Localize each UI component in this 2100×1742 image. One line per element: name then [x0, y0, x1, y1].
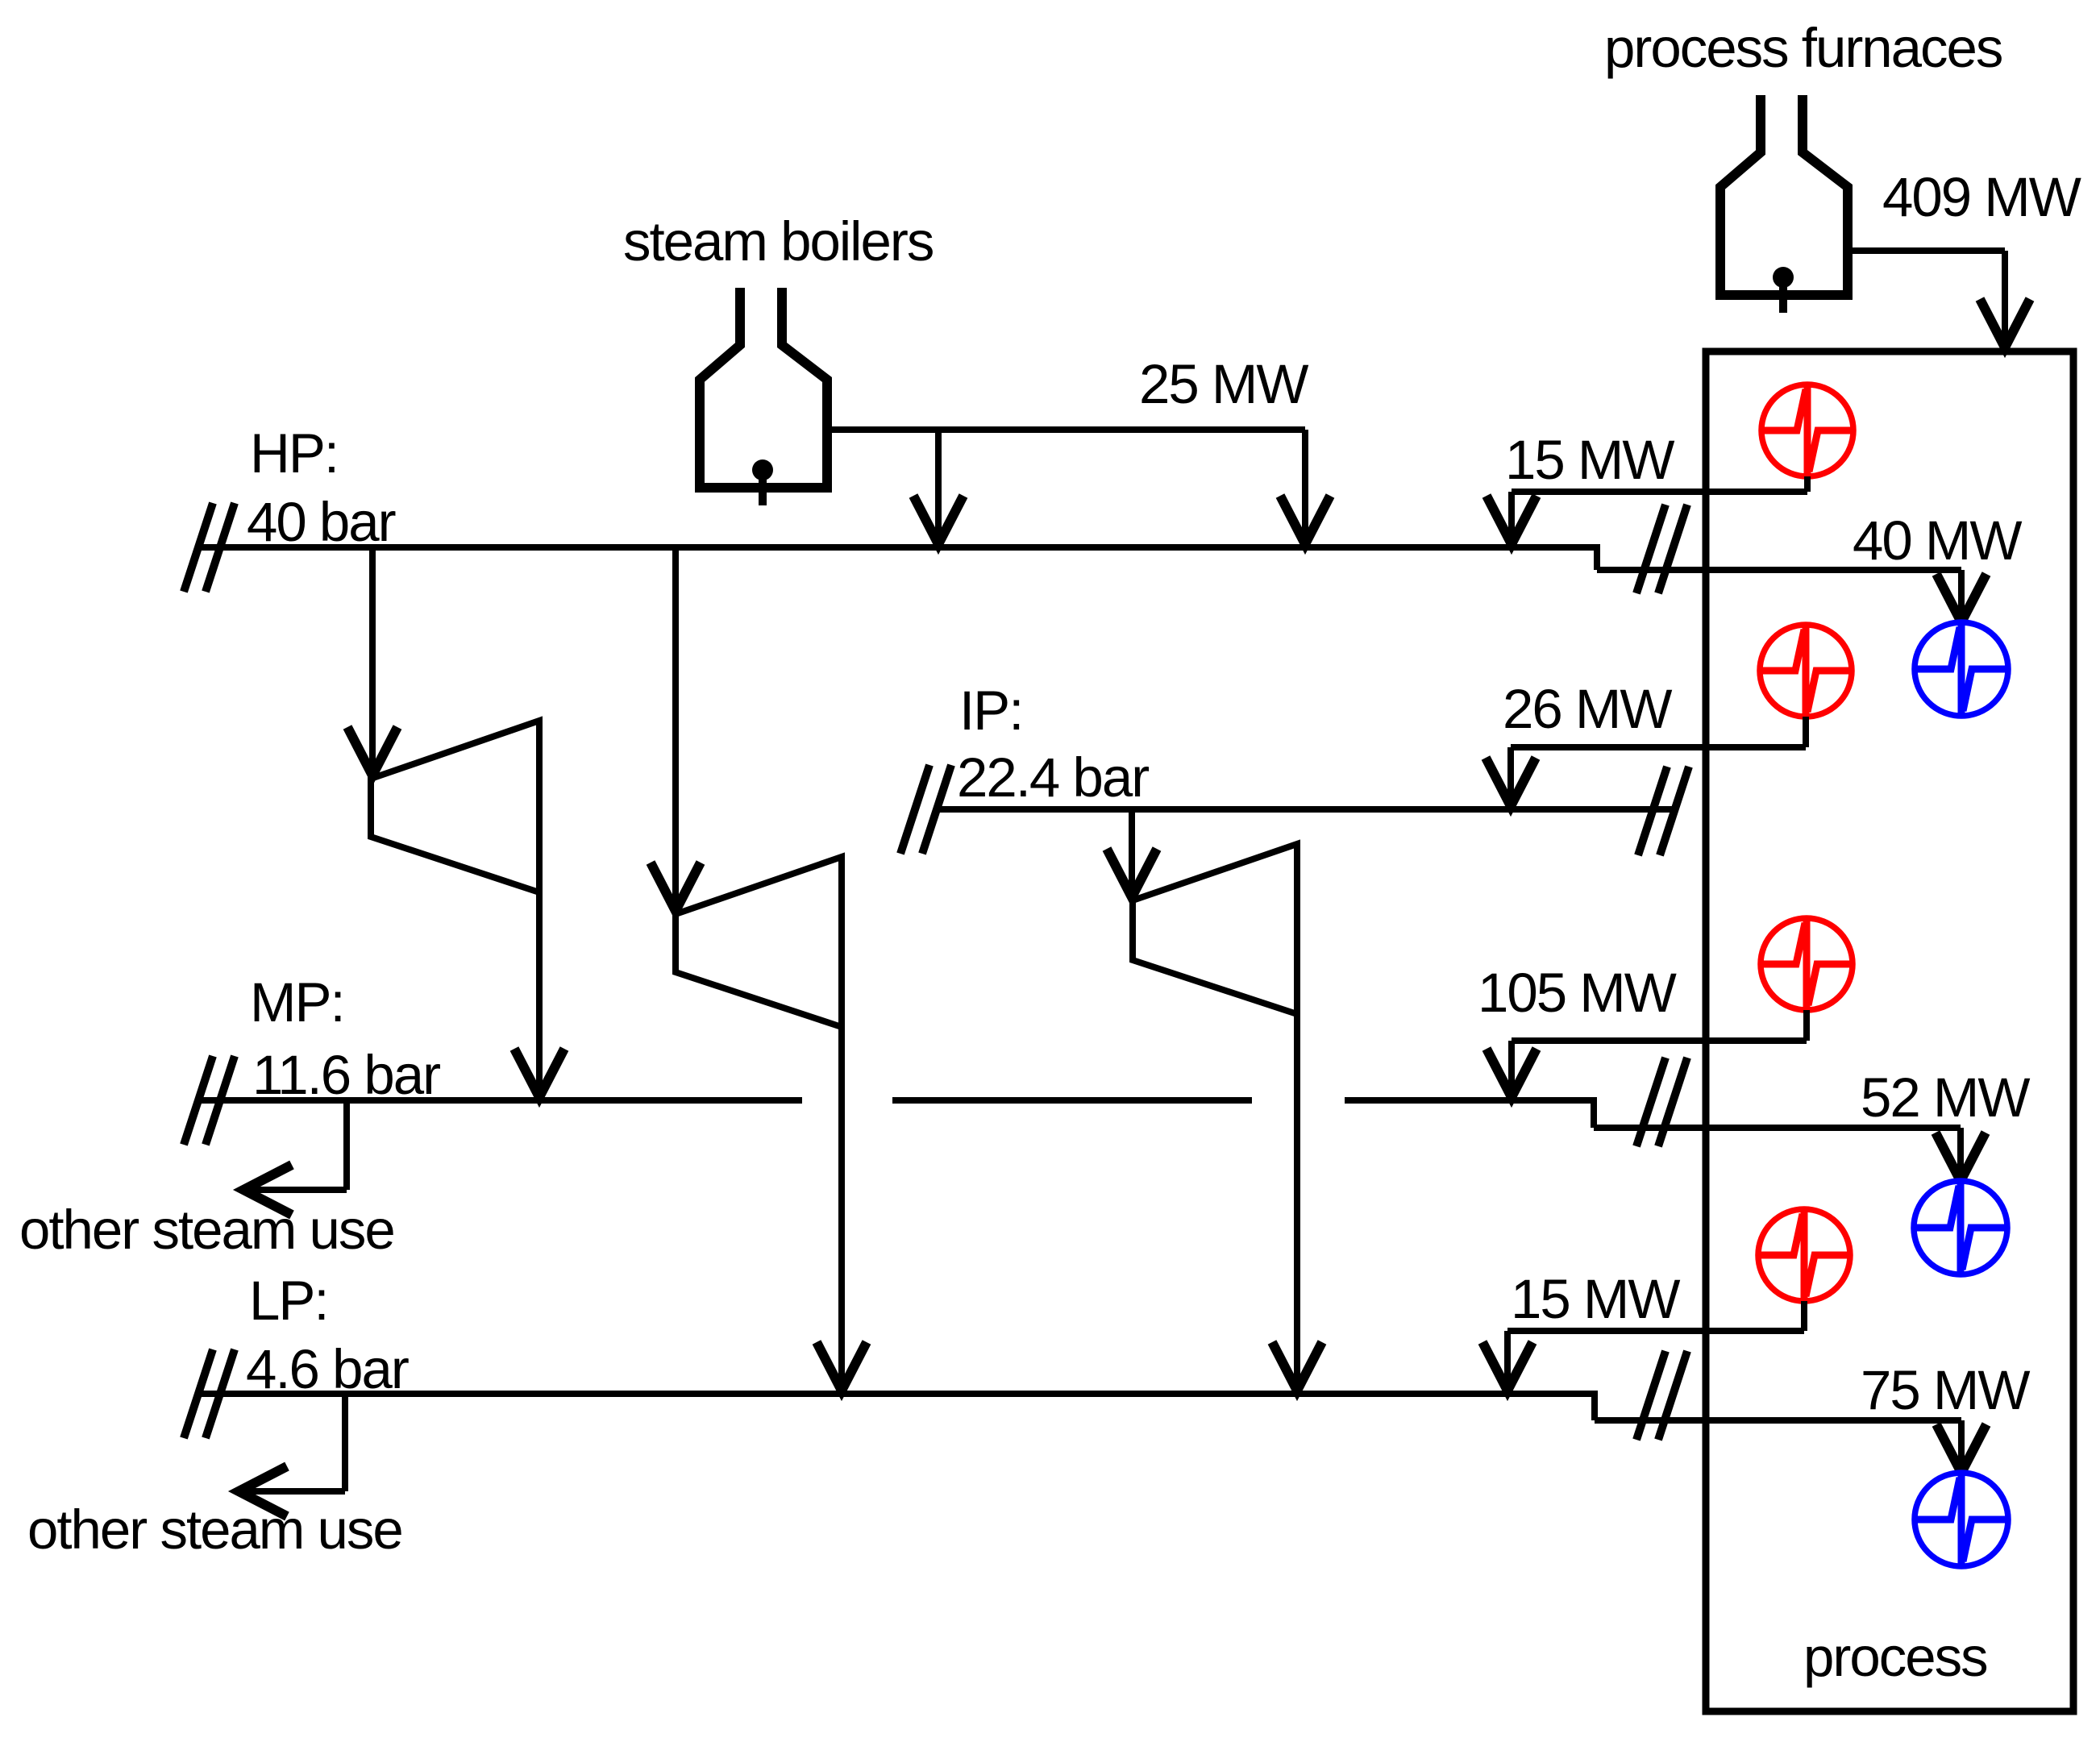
blue exchanger B2: [1914, 1181, 2007, 1274]
svg-text:steam boilers: steam boilers: [623, 210, 933, 272]
40 MW drop to exchanger: [1936, 570, 1986, 622]
LP right break: [1636, 1351, 1687, 1440]
label: 409 MW: [1882, 166, 2081, 228]
turbine T1 (HP-MP): [371, 721, 539, 892]
IP header left break: [900, 765, 951, 854]
label: 4.6 bar: [246, 1338, 409, 1400]
svg-text:other steam use: other steam use: [19, 1199, 394, 1261]
label: 25 MW: [1139, 353, 1308, 415]
svg-text:105 MW: 105 MW: [1478, 962, 1677, 1024]
26 MW wire R2 to IP header: [1486, 717, 1806, 806]
blue exchanger B3: [1915, 1473, 2008, 1566]
label: 26 MW: [1503, 678, 1672, 740]
MP right break: [1636, 1058, 1687, 1146]
LP other steam use branch: [239, 1394, 345, 1516]
svg-text:25 MW: 25 MW: [1139, 353, 1308, 415]
15 MW wire R4 to LP header: [1482, 1301, 1804, 1391]
svg-text:MP:: MP:: [250, 971, 344, 1033]
svg-text:IP:: IP:: [959, 680, 1022, 742]
label: 22.4 bar: [957, 746, 1149, 809]
label: steam boilers: [623, 210, 933, 272]
MP header seg3: [1345, 1097, 1594, 1104]
label: IP:: [959, 680, 1022, 742]
MP header jog down: [1591, 1097, 1597, 1128]
svg-text:HP:: HP:: [250, 422, 338, 484]
label: process: [1803, 1626, 1987, 1688]
red exchanger R2: [1760, 625, 1852, 717]
T2 inlet from HP header: [651, 547, 701, 911]
75 MW drop to exchanger: [1936, 1420, 1986, 1473]
label: 11.6 bar: [252, 1044, 440, 1106]
label: 15 MW (HP): [1505, 429, 1674, 491]
MP header left break: [184, 1056, 235, 1145]
label: 52 MW: [1861, 1066, 2030, 1129]
15 MW wire R1 to HP header: [1487, 476, 1807, 544]
label: 105 MW: [1478, 962, 1677, 1024]
T1 inlet from HP header: [347, 547, 397, 775]
svg-text:15 MW: 15 MW: [1505, 429, 1674, 491]
process furnace symbol: [1720, 95, 1848, 313]
svg-text:LP:: LP:: [249, 1270, 328, 1332]
label: other steam use (LP): [27, 1499, 402, 1561]
turbine T3 (IP-LP): [1133, 844, 1297, 1014]
MP header seg1: [202, 1097, 802, 1104]
25 MW branch 1 arrow to HP: [913, 430, 963, 544]
svg-text:26 MW: 26 MW: [1503, 678, 1672, 740]
T3 exhaust to LP header: [1272, 1014, 1322, 1391]
label: LP:: [249, 1270, 328, 1332]
label: process furnaces: [1604, 17, 2002, 79]
HP header 40 bar: [202, 544, 1597, 551]
IP header right break: [1638, 767, 1689, 855]
LP header left break: [184, 1349, 235, 1438]
105 MW wire R3 to MP header: [1487, 1010, 1807, 1097]
svg-text:52 MW: 52 MW: [1861, 1066, 2030, 1129]
MP other steam use branch: [243, 1100, 347, 1215]
T1 exhaust to MP header: [514, 892, 564, 1097]
label: 40 MW: [1853, 509, 2022, 572]
red exchanger R4: [1758, 1209, 1850, 1301]
label: HP:: [250, 422, 338, 484]
svg-text:409 MW: 409 MW: [1882, 166, 2081, 228]
red exchanger R3: [1761, 918, 1853, 1010]
25 MW line from boiler: [827, 426, 1305, 433]
label: other steam use (MP): [19, 1199, 394, 1261]
steam boiler furnace symbol: [700, 288, 827, 505]
red exchanger R1: [1761, 385, 1853, 476]
25 MW branch 2 arrow to HP: [1280, 430, 1330, 544]
HP header jog down: [1594, 544, 1600, 570]
T3 inlet from IP header: [1107, 809, 1157, 897]
blue exchanger B1: [1915, 622, 2008, 716]
T2 exhaust to LP header: [817, 1027, 867, 1391]
LP header jog down: [1591, 1391, 1598, 1420]
svg-text:40 MW: 40 MW: [1853, 509, 2022, 572]
40 MW line into process: [1597, 567, 1961, 573]
MP header seg2: [892, 1097, 1252, 1104]
label: 15 MW (LP): [1511, 1268, 1680, 1330]
75 MW line into process: [1595, 1417, 1961, 1424]
label: 40 bar: [247, 491, 396, 553]
HP right break: [1636, 505, 1687, 593]
HP header left break: [184, 503, 235, 592]
IP header 22.4 bar: [938, 806, 1674, 813]
process box: [1706, 351, 2073, 1711]
svg-text:process: process: [1803, 1626, 1987, 1688]
svg-text:process furnaces: process furnaces: [1604, 17, 2002, 79]
svg-text:15 MW: 15 MW: [1511, 1268, 1680, 1330]
svg-text:40 bar: 40 bar: [247, 491, 396, 553]
label: MP:: [250, 971, 344, 1033]
52 MW drop to exchanger: [1936, 1128, 1986, 1181]
svg-text:22.4 bar: 22.4 bar: [957, 746, 1149, 809]
label: 75 MW: [1861, 1359, 2030, 1421]
svg-text:75 MW: 75 MW: [1861, 1359, 2030, 1421]
svg-text:other steam use: other steam use: [27, 1499, 402, 1561]
409 MW line from furnace: [1844, 251, 2030, 347]
svg-text:11.6 bar: 11.6 bar: [252, 1044, 440, 1106]
52 MW line into process: [1594, 1125, 1961, 1131]
LP header 4.6 bar: [202, 1391, 1595, 1397]
turbine T2 (HP-LP): [676, 857, 842, 1027]
